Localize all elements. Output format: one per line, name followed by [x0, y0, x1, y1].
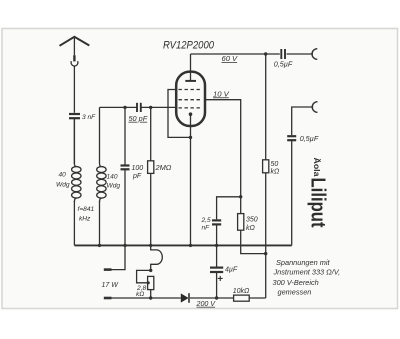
node g2/2.5nF junction	[239, 195, 242, 198]
resistor 50k	[263, 160, 269, 173]
svg-text:pF: pF	[132, 173, 142, 180]
terminal output right	[312, 102, 317, 113]
wire coil L2 to rail	[99, 201, 101, 246]
node rail 2M	[149, 244, 152, 247]
node anode/50k junction	[264, 52, 267, 55]
tube grid g3 dashed	[179, 89, 203, 91]
svg-text:2MΩ: 2MΩ	[155, 163, 172, 172]
wire g3 to cathode link	[168, 90, 191, 138]
svg-text:Äola: Äola	[312, 158, 322, 177]
svg-text:kHz: kHz	[79, 216, 91, 223]
terminal output top	[312, 49, 317, 60]
svg-text:Spannungen mit: Spannungen mit	[276, 258, 330, 267]
svg-text:RV12P2000: RV12P2000	[163, 40, 214, 52]
svg-text:gemessen: gemessen	[278, 288, 312, 297]
svg-text:10kΩ: 10kΩ	[233, 288, 250, 295]
resistor 350k	[238, 214, 244, 231]
svg-text:2,5: 2,5	[201, 217, 211, 224]
svg-text:100: 100	[132, 165, 144, 172]
svg-text:140: 140	[107, 174, 118, 181]
node junction 100pF tap	[123, 106, 126, 109]
wire cathode to rail	[190, 137, 192, 245]
capacitor 50pF series	[137, 103, 141, 112]
svg-text:kΩ: kΩ	[246, 225, 256, 232]
node rail 100pF	[123, 244, 126, 247]
resistor 2,8k tapped with hop	[137, 245, 163, 299]
tube U1 RV12P2000 envelope	[176, 72, 205, 126]
svg-text:60 V: 60 V	[222, 54, 239, 63]
wire 0,5uF right to rail	[291, 141, 293, 245]
capacitor 3nF	[69, 114, 80, 118]
resistor 10k	[234, 295, 250, 301]
node bottom 4uF junction	[215, 296, 218, 299]
tube cathode	[189, 112, 193, 137]
svg-text:+: +	[217, 274, 223, 285]
tube grid g2 dashed	[179, 99, 203, 101]
wire g2 screen 10V	[205, 100, 241, 214]
antenna	[60, 37, 90, 66]
wire 2M branch lower	[150, 173, 152, 245]
label note spannungen	[273, 258, 341, 297]
svg-text:50: 50	[271, 161, 279, 168]
wire bottom 200V line	[112, 297, 266, 299]
capacitor 100pF	[121, 166, 130, 170]
heater tap wire upper 17W terminal	[105, 245, 126, 269]
capacitor 0,5uF right	[287, 136, 296, 140]
ground rail chassis bus	[74, 244, 291, 246]
wire terminal2 to 0,5uF	[292, 107, 314, 135]
tube anode	[185, 54, 196, 81]
resistor 2M ohm	[148, 161, 154, 174]
terminal heater upper stub	[104, 268, 112, 271]
svg-text:300 V-Bereich: 300 V-Bereich	[273, 278, 319, 287]
node rail 2,5nF	[215, 244, 218, 247]
wire 50k lower to junction	[265, 173, 267, 254]
wire coil L1 to rail	[73, 201, 75, 246]
svg-text:10 V: 10 V	[213, 89, 230, 98]
wire 3nF to coil L1	[73, 119, 75, 164]
svg-text:50 pF: 50 pF	[129, 114, 148, 123]
svg-text:40: 40	[59, 172, 67, 179]
tube grid g1 dashed	[179, 107, 203, 109]
capacitor 2,5nF	[212, 220, 221, 224]
svg-text:kΩ: kΩ	[271, 169, 281, 176]
terminal heater lower stub	[104, 297, 112, 300]
svg-text:17 W: 17 W	[102, 282, 120, 289]
coil L2 140 Wdg	[97, 107, 106, 202]
wire 50k branch	[265, 54, 267, 160]
svg-text:Wdg: Wdg	[56, 182, 70, 189]
svg-text:0,5µF: 0,5µF	[274, 60, 293, 69]
wire 2,5nF branch bottom	[216, 225, 218, 245]
svg-text:nF: nF	[202, 225, 211, 232]
svg-text:4µF: 4µF	[225, 267, 238, 274]
wire 350k bottom to junction	[241, 230, 266, 253]
wire 100pF branch lower	[124, 170, 126, 245]
node 50k/350k junction	[264, 252, 267, 255]
wire junction down to bottom wire	[265, 254, 267, 298]
wire 100pF branch upper	[124, 107, 126, 164]
diode D1	[181, 293, 189, 303]
svg-text:Liliput: Liliput	[307, 178, 329, 228]
capacitor 0,5uF output series	[281, 49, 285, 59]
svg-text:350: 350	[246, 217, 258, 224]
wire grid bus g1	[100, 106, 177, 108]
svg-text:3 nF: 3 nF	[82, 114, 96, 121]
node junction 2M tap	[149, 106, 152, 109]
wire 2,5nF branch top	[217, 197, 241, 220]
svg-text:0,5µF: 0,5µF	[300, 134, 319, 143]
node rail L2	[98, 244, 101, 247]
wire antenna lead	[73, 66, 75, 113]
wire 2M branch upper	[150, 107, 152, 160]
node g3-cathode junction	[189, 136, 192, 139]
wire anode top rail	[191, 53, 314, 55]
svg-text:Jnstrument 333 Ω/V,: Jnstrument 333 Ω/V,	[273, 268, 341, 277]
coil L1 40 Wdg	[72, 119, 81, 202]
svg-text:200 V: 200 V	[196, 300, 217, 308]
node rail cathode	[189, 244, 192, 247]
svg-text:Wdg: Wdg	[107, 183, 121, 190]
svg-text:kΩ: kΩ	[136, 291, 144, 298]
svg-text:f=841: f=841	[78, 206, 95, 213]
capacitor 4uF electrolytic	[210, 245, 223, 298]
